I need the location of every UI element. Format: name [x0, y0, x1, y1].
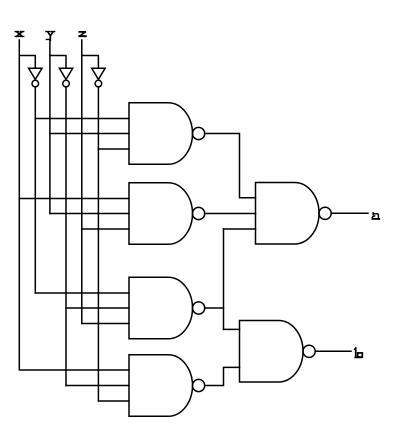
wire y' to NAND3 input2: [66, 307, 129, 309]
wire x' vertical: [34, 87, 36, 293]
inverter z': [92, 68, 105, 79]
wire z to NAND2 input3: [82, 228, 129, 230]
inverter z' bubble: [95, 80, 102, 87]
wire x branch to inverter: [19, 56, 35, 69]
wire G3 output: [205, 307, 224, 309]
wire y' vertical: [65, 87, 67, 386]
node b output label: [355, 348, 362, 357]
nand gate G3 body: [129, 277, 193, 339]
node z input label: [79, 32, 86, 36]
nand gate GA body: [256, 183, 320, 245]
node x input label: [15, 32, 24, 37]
inverter y': [59, 68, 72, 79]
wire z to NAND3 input3: [82, 323, 129, 325]
nand gate G4 bubble: [193, 379, 205, 391]
nand gate G4 body: [129, 355, 193, 417]
wire y' to NAND4 input2: [66, 385, 129, 387]
wire x to NAND2 input1: [19, 198, 129, 200]
inverter x' bubble: [32, 80, 39, 87]
wire z' to NAND4 input3: [98, 400, 129, 402]
wire y vertical: [49, 40, 51, 214]
inverter y' bubble: [63, 80, 70, 87]
nand gate G1 bubble: [193, 127, 205, 139]
inverter x': [29, 68, 42, 79]
wire x vertical: [19, 40, 129, 370]
wire G4 output to GB input2: [205, 367, 240, 385]
wire z' vertical: [97, 87, 99, 401]
node a output label: [372, 213, 378, 219]
wire to GB input1: [224, 328, 240, 330]
wire z branch to inverter: [82, 56, 99, 69]
wire output a: [331, 212, 368, 214]
wire G3 net vertical: [223, 229, 225, 329]
wire G1 output to GA input1: [205, 134, 256, 198]
nand gate GB body: [240, 321, 304, 383]
nand gate G2 bubble: [193, 207, 205, 219]
wire z' to NAND1 input3: [98, 148, 129, 150]
wire y to NAND2 input2: [50, 213, 129, 215]
nand gate G2 body: [129, 183, 192, 245]
wire output b: [315, 350, 351, 352]
nand gate G3 bubble: [193, 302, 205, 314]
node y input label: [46, 32, 55, 40]
wire x' to NAND1 input1: [35, 118, 129, 120]
wire y branch to inverter: [50, 56, 66, 69]
nand gate G1 body: [129, 103, 192, 165]
wire G2 output to GA input2: [205, 213, 256, 215]
wire y to NAND1 input2: [50, 133, 129, 135]
wire x' to NAND3 input1: [35, 292, 129, 294]
nand gate GA bubble: [319, 207, 331, 219]
wire z vertical: [81, 40, 83, 324]
wire to GA input3: [224, 228, 256, 230]
nand gate GB bubble: [303, 345, 315, 357]
